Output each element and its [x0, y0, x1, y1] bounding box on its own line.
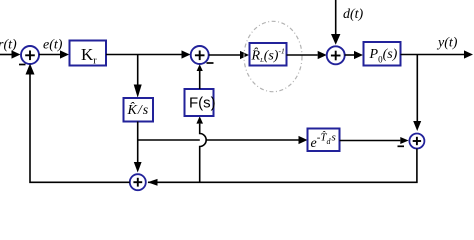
- summing junction S3: [327, 46, 345, 64]
- block RL(s)^-1: [250, 43, 287, 66]
- block e^-Td s: [308, 129, 340, 152]
- minus sign at S4 left: [398, 145, 405, 147]
- wire y branch down to S4: [413, 55, 421, 132]
- summing junction S4: [409, 134, 424, 149]
- wire S4 output down and left along bottom: [148, 149, 417, 186]
- svg-text:K̂/s: K̂/s: [127, 102, 149, 118]
- wire d(t) input from top: [331, 0, 340, 45]
- wire r(t) input: [0, 50, 21, 58]
- svg-text:F(s): F(s): [189, 95, 216, 112]
- wire F(s) input: up from bottom line with hop over y=140 line: [196, 116, 206, 182]
- svg-text:r(t): r(t): [0, 38, 17, 53]
- wire Khat/s down to S5: [134, 122, 142, 173]
- wire e(t): S1 to Kr: [39, 50, 69, 58]
- summing junction S5: [130, 174, 146, 190]
- minus sign at S2 lower-right: [207, 62, 214, 64]
- wire P0 output / y(t): [401, 50, 474, 58]
- block Kr: [70, 41, 107, 67]
- svg-text:y(t): y(t): [436, 36, 458, 51]
- wire Kr output to S2: [106, 50, 191, 58]
- block F(s): [185, 89, 216, 116]
- minus sign at S1 lower-left: [19, 64, 26, 66]
- wire S2 to RL block: [209, 51, 249, 59]
- dashed highlight ellipse: [244, 21, 302, 91]
- block P0(s): [364, 42, 401, 66]
- wire S3 to P0: [345, 51, 363, 59]
- summing junction S2: [191, 46, 209, 64]
- wire S5 output left and up to S1: [26, 64, 130, 183]
- svg-text:e(t): e(t): [43, 38, 63, 53]
- wire F(s) output up to S2: [197, 64, 203, 89]
- svg-text:d(t): d(t): [343, 7, 364, 22]
- summing junction S1: [21, 46, 39, 64]
- wire branch from Kr line down to Khat/s: [134, 55, 142, 98]
- svg-text:P0(s): P0(s): [369, 47, 398, 65]
- block Khat/s: [124, 98, 154, 122]
- wire e-block to S4: [340, 137, 409, 144]
- wire RL to S3: [287, 51, 327, 59]
- wire horizontal branch y=140 to e-block (with gap at hop): [138, 136, 308, 144]
